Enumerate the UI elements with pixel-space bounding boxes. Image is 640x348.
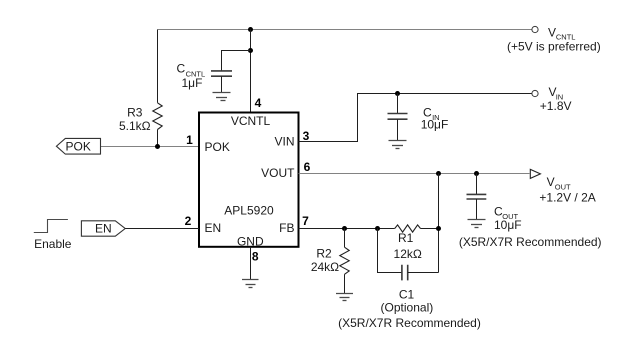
node junction R1 right / vertical (436, 226, 441, 231)
node junction CIN tap (395, 91, 400, 96)
svg-text:(X5R/X7R Recommended): (X5R/X7R Recommended) (338, 316, 481, 330)
terminal VOUT arrow (530, 169, 595, 204)
svg-text:R2: R2 (316, 247, 332, 261)
svg-text:R1: R1 (398, 231, 414, 245)
node junction COUT tap (474, 171, 479, 176)
svg-text:EN: EN (95, 222, 112, 236)
svg-text:Enable: Enable (34, 237, 72, 251)
capacitor CCNTL (177, 61, 233, 92)
wire GND pin 8 drop (250, 247, 252, 280)
wire VOUT rail pin 6 (299, 173, 530, 175)
svg-text:VCNTL: VCNTL (231, 114, 271, 128)
capacitor CIN (388, 94, 449, 141)
wire FB net pin 7 (299, 228, 439, 230)
svg-text:VOUT: VOUT (261, 166, 295, 180)
node junction CCNTL tap (248, 48, 253, 53)
svg-text:(X5R/X7R Recommended): (X5R/X7R Recommended) (459, 235, 602, 249)
terminal VIN (532, 85, 572, 113)
node junction C1 left tap (375, 226, 380, 231)
resistor R1 (394, 225, 422, 261)
svg-text:POK: POK (66, 140, 91, 154)
svg-text:C: C (177, 61, 186, 75)
svg-text:+1.8V: +1.8V (540, 99, 572, 113)
wire VCNTL top rail (158, 29, 532, 31)
wire R3 top drop (157, 30, 159, 103)
svg-text:7: 7 (302, 214, 309, 228)
enable step waveform (34, 220, 72, 252)
svg-text:V: V (548, 25, 556, 39)
wire CCNTL branch (222, 51, 251, 71)
svg-text:(Optional): (Optional) (381, 301, 434, 315)
svg-text:24kΩ: 24kΩ (311, 260, 339, 274)
wire EN net pin 2 (125, 228, 199, 230)
svg-text:GND: GND (237, 235, 264, 249)
svg-text:POK: POK (205, 140, 230, 154)
terminal VCNTL (507, 25, 601, 53)
wire VOUT to FB vertical (438, 174, 440, 273)
ground CIN (389, 141, 407, 149)
svg-text:12kΩ: 12kΩ (394, 247, 422, 261)
resistor R3 (119, 103, 162, 147)
svg-text:1μF: 1μF (182, 76, 203, 90)
svg-text:8: 8 (252, 250, 259, 264)
ground COUT (468, 220, 486, 228)
svg-text:+1.2V / 2A: +1.2V / 2A (539, 191, 595, 205)
capacitor C1 (338, 229, 481, 331)
svg-text:FB: FB (279, 221, 294, 235)
node junction R2 tap (342, 226, 347, 231)
wire VIN net pin 3 (299, 94, 532, 142)
capacitor COUT (459, 174, 602, 250)
node junction R3 / POK (155, 144, 160, 149)
wire POK net (101, 146, 200, 148)
svg-text:VIN: VIN (274, 134, 294, 148)
node junction FB divider tap (436, 171, 441, 176)
ground CCNTL (213, 93, 231, 101)
svg-text:APL5920: APL5920 (224, 203, 274, 217)
resistor R2 (311, 229, 349, 294)
node junction top rail / pin4 (248, 27, 253, 32)
svg-text:10μF: 10μF (494, 218, 522, 232)
svg-text:4: 4 (255, 96, 262, 110)
svg-text:1: 1 (186, 133, 193, 147)
svg-text:EN: EN (205, 221, 222, 235)
svg-text:10μF: 10μF (421, 118, 449, 132)
op-amp U1 APL5920 (199, 113, 299, 249)
svg-text:(+5V is preferred): (+5V is preferred) (507, 39, 601, 53)
wire pin 4 drop (250, 30, 252, 113)
svg-text:R3: R3 (127, 105, 143, 119)
terminal POK flag (56, 138, 100, 154)
svg-text:5.1kΩ: 5.1kΩ (119, 119, 151, 133)
terminal EN flag (81, 221, 125, 236)
svg-text:C1: C1 (399, 287, 415, 301)
svg-text:6: 6 (304, 160, 311, 174)
svg-text:V: V (547, 175, 555, 189)
svg-text:3: 3 (303, 129, 310, 143)
ground GND pin 8 (242, 280, 259, 288)
svg-text:2: 2 (185, 214, 192, 228)
ground R2 (336, 294, 353, 301)
